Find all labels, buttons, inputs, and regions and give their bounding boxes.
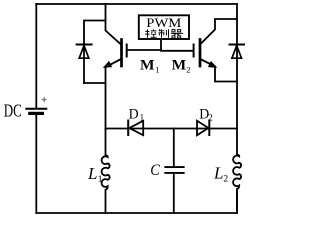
svg-text:1: 1 [140, 113, 145, 123]
svg-text:2: 2 [223, 174, 228, 184]
svg-text:1: 1 [98, 175, 103, 185]
wire M1 collector drop [106, 4, 122, 45]
inductor L1 [102, 129, 110, 214]
wire top rail [36, 3, 237, 5]
capacitor C [165, 129, 183, 214]
svg-text:1: 1 [155, 64, 159, 74]
svg-text:C: C [150, 162, 160, 179]
transistor M1 [104, 40, 127, 68]
svg-text:2: 2 [208, 113, 213, 123]
wire M1 freewheel branch top [84, 21, 106, 45]
wire left rail upper [35, 4, 37, 108]
wire M2 emitter drop [215, 67, 237, 82]
svg-text:DC: DC [4, 101, 22, 121]
diode D1 [128, 121, 143, 136]
wire M2 gate stem [161, 50, 194, 52]
svg-text:M: M [140, 58, 155, 74]
diode freewheel D-M2 [230, 45, 245, 59]
inductor L2 [233, 155, 241, 214]
diode D2 [197, 121, 209, 136]
wire M1 emitter drop [105, 67, 107, 129]
wire M2 collector [200, 19, 237, 45]
制 [159, 29, 169, 37]
wire M1 freewheel branch bottom [84, 82, 106, 84]
svg-text:PWM: PWM [146, 15, 181, 30]
svg-text:M: M [172, 58, 187, 74]
控 [145, 29, 156, 37]
plus sign [42, 97, 47, 102]
svg-text:L: L [213, 163, 224, 182]
器 [171, 30, 183, 38]
svg-text:L: L [87, 164, 98, 183]
wire M1 gate line [127, 39, 161, 50]
PWM controller box [139, 15, 189, 39]
label 控制器 (drawn strokes) [145, 29, 183, 38]
wire bottom rail [36, 212, 237, 214]
diode freewheel D-M1 [77, 45, 92, 84]
wire left rail lower [35, 115, 37, 213]
svg-text:2: 2 [186, 64, 190, 74]
battery DC source [26, 109, 46, 114]
svg-text:D: D [129, 106, 139, 122]
transistor M2 [194, 40, 216, 68]
wire mid rail [106, 128, 238, 130]
wire right rail [236, 4, 238, 213]
